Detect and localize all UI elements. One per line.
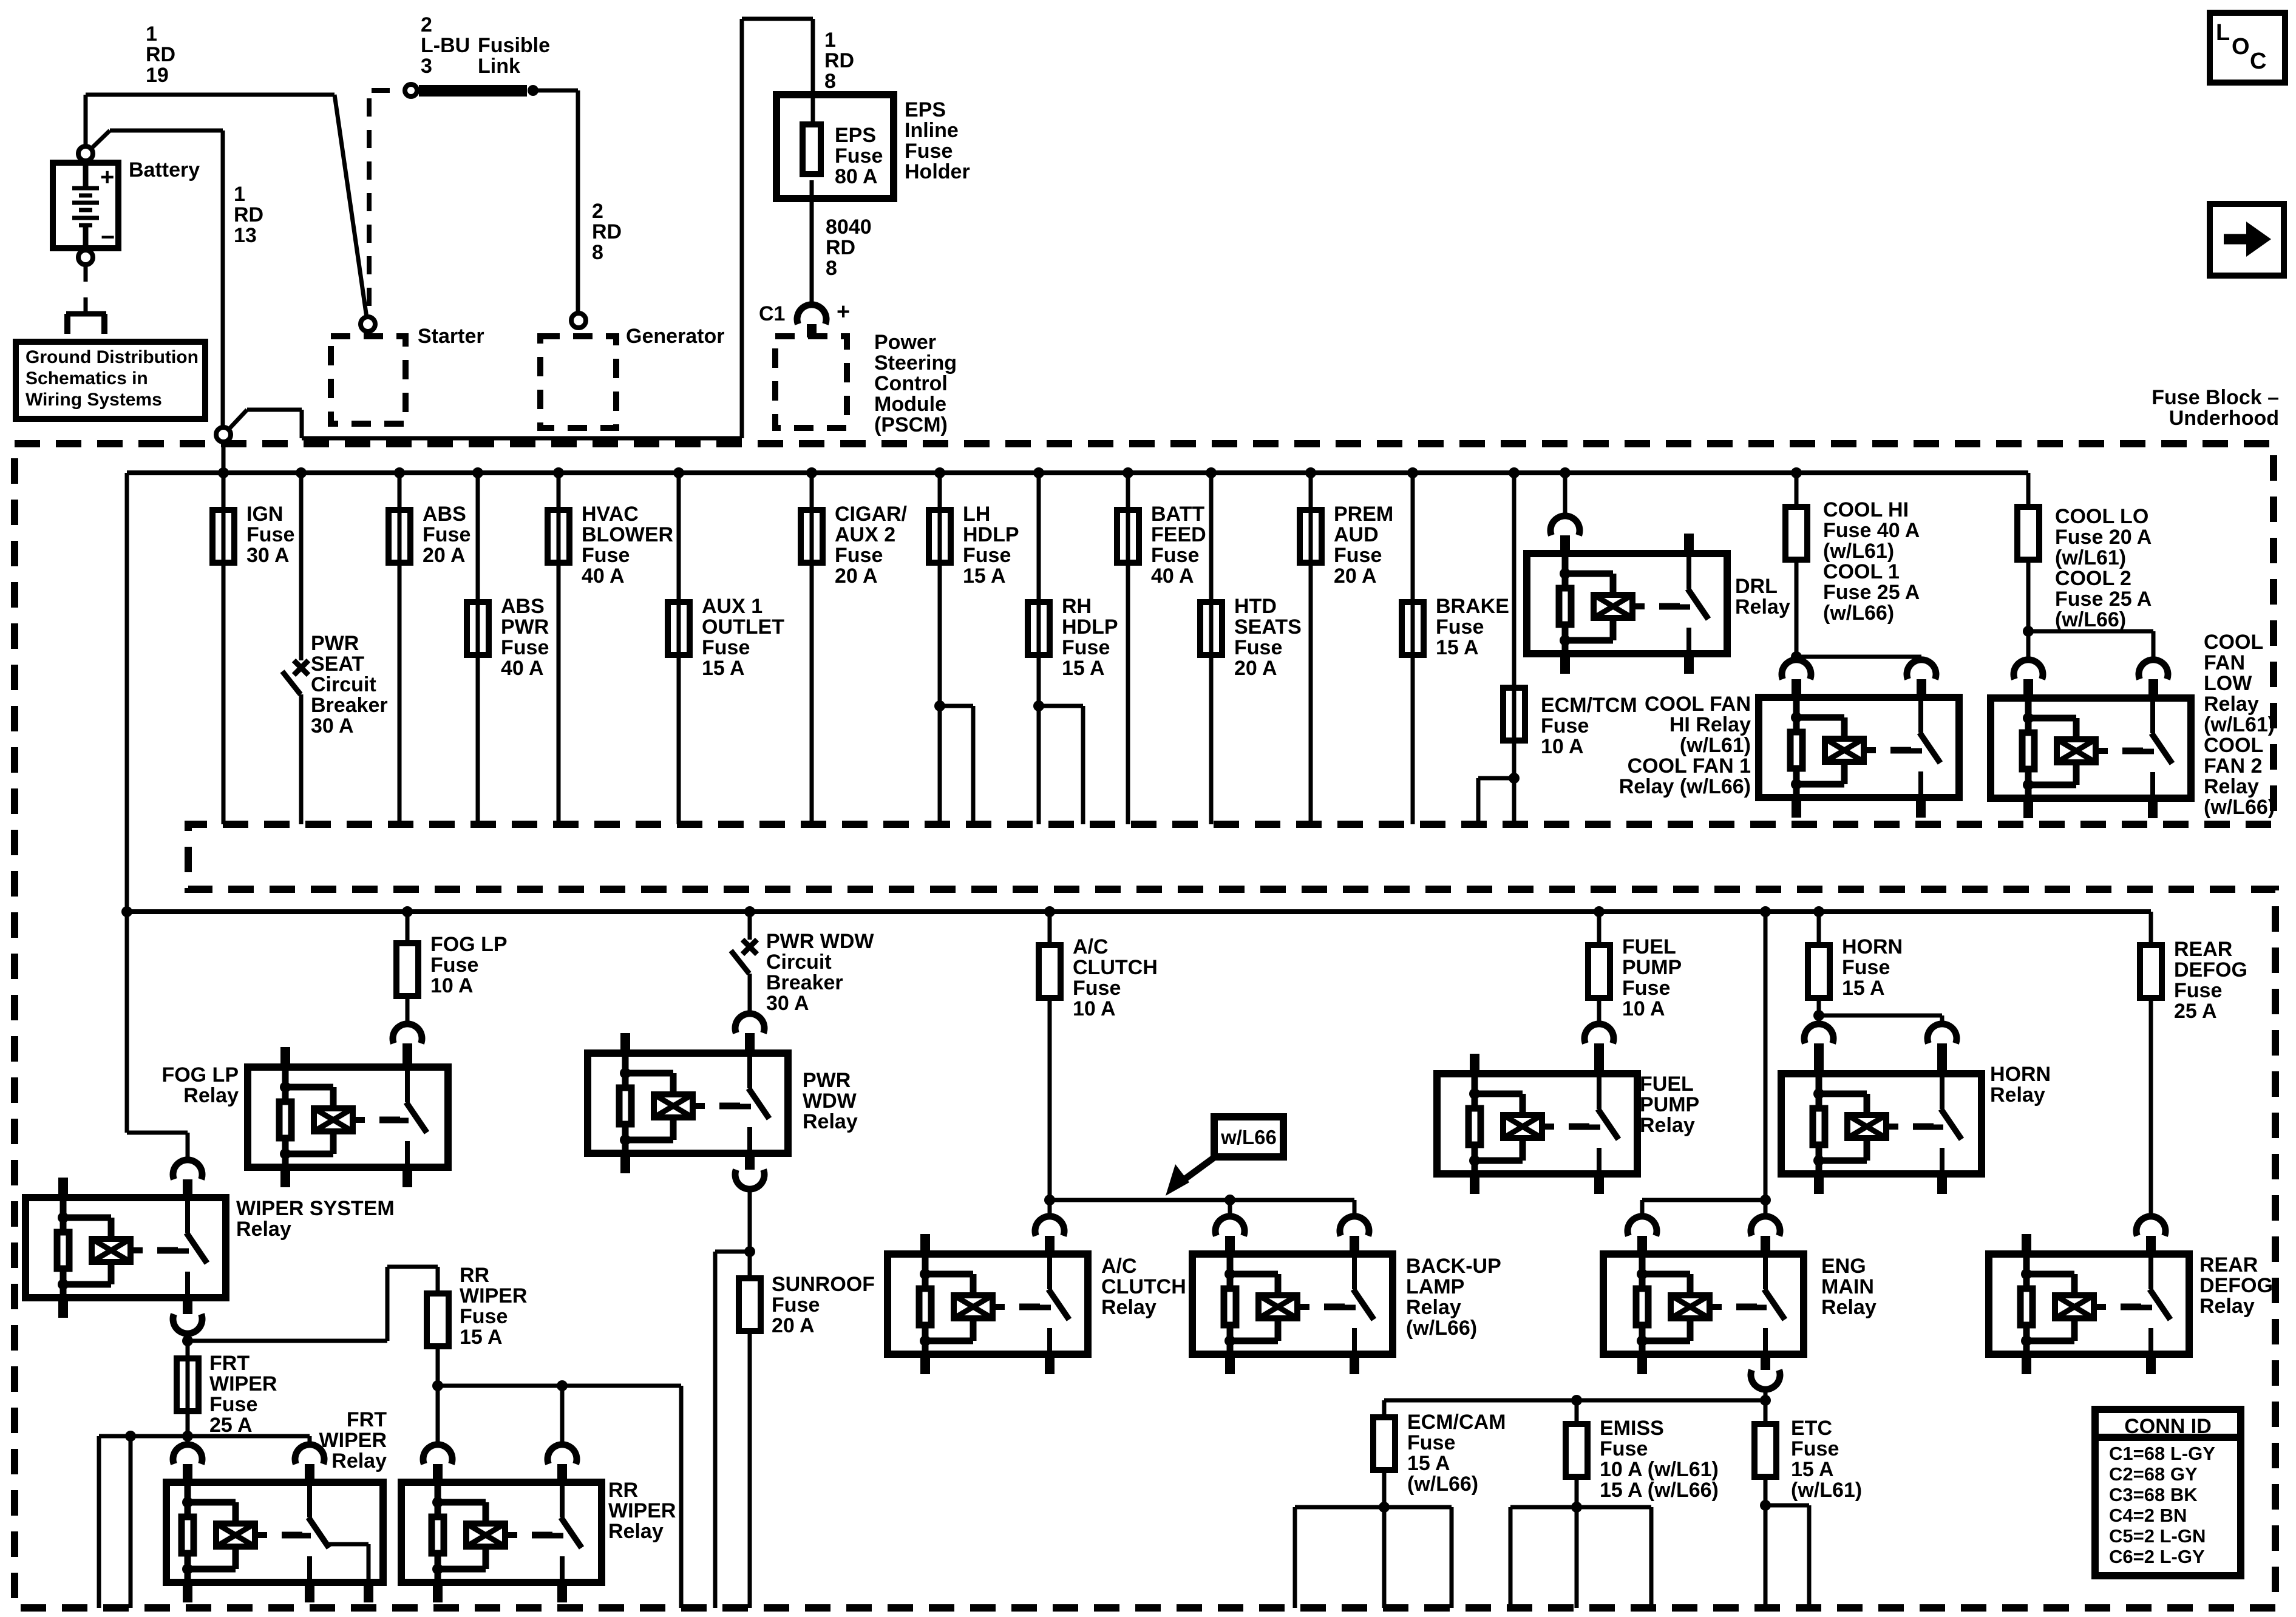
fuse RH HDLP 15 A — [1028, 602, 1050, 655]
junction BATT FEED feed — [1123, 467, 1133, 478]
fuse LH HDLP 15 A — [929, 510, 951, 563]
wire RR WIPER fuse output — [436, 1349, 440, 1386]
junction wiper feed split — [182, 1335, 193, 1346]
wire DRL relay coil feed — [1563, 473, 1567, 514]
arrow legend box (next page) — [2210, 204, 2284, 276]
wire battery positive feed 1 RD 13 (to fuse block) — [91, 131, 110, 149]
wire battery ground (dashed) — [84, 266, 88, 282]
wire SUNROOF fuse output — [748, 1334, 752, 1608]
wire load output leg — [679, 1386, 684, 1608]
fuse HORN 15 A — [1808, 945, 1830, 998]
junction COOL FAN HI relay feed — [1791, 651, 1802, 662]
fuse AUX 1 OUTLET 15 A — [668, 602, 690, 655]
wire WIPER SYSTEM relay output — [173, 1314, 202, 1334]
wire ABS fuse output — [398, 473, 402, 824]
relay ENG MAIN — [1628, 1216, 1657, 1236]
junction LH HDLP feed — [934, 467, 945, 478]
wire COOL FAN LOW relay switch branch — [2028, 629, 2153, 634]
junction HTD SEATS feed — [1206, 467, 1217, 478]
fusible link 2 L-BU 3 — [419, 85, 527, 97]
junction EMISS fuse feed — [1571, 1395, 1582, 1406]
junction ENG MAIN relay split — [1760, 1195, 1771, 1205]
fuse ECM/CAM 15 A (w/L66) — [1373, 1417, 1395, 1470]
note box Ground Distribution Schematics in Wiring Systems — [16, 342, 205, 419]
wire CIGAR/AUX 2 fuse output — [810, 473, 814, 824]
wire main bus (top) — [222, 442, 226, 473]
wire RH HDLP fuse outputs — [1037, 473, 1041, 824]
junction PREM AUD feed — [1305, 467, 1316, 478]
fuse CIGAR/AUX 2 20 A — [801, 510, 823, 563]
junction CIGAR/AUX 2 feed — [806, 467, 817, 478]
wire battery positive feed 1 RD 19 (to starter) — [86, 93, 335, 97]
junction IGN feed — [218, 467, 229, 478]
wire ENG MAIN relay feed — [1764, 912, 1768, 1200]
junction FOG LP fuse feed — [402, 906, 413, 917]
fuse FOG LP 10 A — [396, 943, 418, 996]
svg-text:+: + — [837, 299, 850, 325]
node main feed into fuse block — [216, 427, 231, 442]
fuse SUNROOF 20 A — [739, 1278, 761, 1331]
wire ABS PWR fuse output — [476, 473, 480, 824]
wire FUEL PUMP fuse — [1597, 912, 1601, 943]
fuse EPS 80 A — [803, 124, 821, 174]
wire RR WIPER fuse feed — [188, 1339, 387, 1343]
junction SUNROOF split — [744, 1246, 755, 1257]
relay COOL FAN LOW (w/L61) / COOL FAN 2 (w/L66) — [2014, 660, 2043, 679]
EPS inline fuse holder box — [776, 95, 894, 198]
junction PWR SEAT feed — [296, 467, 307, 478]
circuit breaker PWR WDW 30 A — [742, 940, 757, 954]
svg-text:Starter: Starter — [418, 325, 484, 348]
node generator output terminal — [571, 313, 586, 328]
wire ENG MAIN relay output bus — [1751, 1370, 1780, 1389]
wire PWR WDW circuit breaker — [748, 912, 752, 940]
relay RR WIPER — [423, 1445, 452, 1464]
wire HORN relay switch branch — [1819, 1014, 1942, 1018]
junction ABS fuse feed — [394, 467, 405, 478]
fuse A/C CLUTCH 10 A — [1039, 945, 1061, 998]
junction lower bus left — [121, 906, 132, 917]
wire main bus (lower) — [127, 909, 2151, 914]
wire LH HDLP fuse outputs — [938, 473, 942, 824]
relay BACK-UP LAMP (w/L66) — [1228, 1200, 1232, 1218]
wire ECM/CAM fuse feed — [1382, 1400, 1387, 1415]
wire starter terminal to fusible link (dashed) — [367, 98, 372, 313]
wire ECM/CAM fuse outputs — [1382, 1473, 1387, 1507]
connector ID table — [2095, 1409, 2241, 1576]
wire PREM AUD fuse output — [1309, 473, 1313, 824]
relay HORN — [1804, 1024, 1833, 1043]
wire BATT FEED fuse output — [1126, 473, 1130, 824]
svg-text:C1: C1 — [759, 302, 785, 325]
svg-text:FUELPUMPRelay: FUELPUMPRelay — [1640, 1073, 1699, 1137]
starter S1 (dashed outline) — [331, 336, 406, 424]
junction FUEL PUMP fuse feed — [1594, 906, 1605, 917]
svg-text:CONN ID: CONN ID — [2124, 1415, 2212, 1438]
fuse BRAKE 15 A — [1402, 602, 1424, 655]
relay COOL FAN HI (w/L61) / COOL FAN 1 (w/L66) — [1782, 660, 1811, 679]
relay DRL — [1550, 516, 1580, 535]
junction A/C CLUTCH relay feed — [1044, 1195, 1055, 1205]
wire PWR SEAT breaker — [299, 473, 304, 660]
node battery negative terminal — [78, 250, 93, 265]
wire BRAKE fuse output — [1411, 473, 1415, 824]
junction ENG MAIN feed — [1760, 906, 1771, 917]
fuse FRT WIPER 25 A — [177, 1358, 199, 1411]
fuse EMISS 10 A (w/L61) 15 A (w/L66) — [1575, 1400, 1579, 1422]
wire REAR DEFOG fuse feed — [2149, 912, 2153, 943]
ground symbol G1 — [66, 311, 106, 317]
fuse PREM AUD 20 A — [1300, 510, 1322, 563]
generator G2 (dashed outline) — [540, 336, 616, 428]
wire HVAC BLOWER fuse output — [557, 473, 561, 824]
fuse block - underhood dashed outline — [15, 444, 2275, 1608]
wire WIPER SYSTEM relay feed — [125, 912, 129, 1133]
fuse HVAC BLOWER 40 A — [548, 510, 569, 563]
fuse COOL HI 40A / COOL 1 25A — [1785, 507, 1807, 560]
wire A/C CLUTCH fuse — [1048, 912, 1052, 943]
junction HVAC BLOWER feed — [553, 467, 564, 478]
power steering control module PSCM (dashed outline) — [775, 336, 847, 428]
relay FOG LP — [393, 1024, 422, 1043]
fuse ABS PWR 40 A — [467, 602, 489, 655]
fuse ECM/TCM 10 A — [1503, 688, 1525, 741]
svg-text:Fuse Block –Underhood: Fuse Block –Underhood — [2152, 386, 2279, 430]
wire AUX 1 OUTLET fuse output — [677, 473, 681, 824]
fuse HTD SEATS 20 A — [1200, 602, 1222, 655]
wire ENG MAIN coil branch — [1642, 1198, 1765, 1202]
wire FRT WIPER outputs — [99, 1434, 310, 1439]
wire COOL HI fuse output — [1795, 473, 1799, 504]
node battery positive terminal — [78, 146, 93, 161]
svg-text:PWRWDWRelay: PWRWDWRelay — [803, 1069, 858, 1133]
junction HORN fuse feed — [1813, 906, 1824, 917]
wire load output leg — [715, 1250, 750, 1254]
note box w/L66 — [1214, 1117, 1283, 1157]
svg-text:O: O — [2232, 34, 2250, 59]
junction fusible link output — [528, 85, 538, 96]
svg-text:−: − — [101, 224, 115, 251]
LOC legend box — [2210, 13, 2285, 83]
wire EPS feed loop 1 RD 8 — [229, 410, 247, 429]
junction AUX 1 OUTLET feed — [673, 467, 684, 478]
wire w/L66 branch to BACK-UP LAMP relay — [1050, 1198, 1354, 1202]
junction FRT WIPER fuse output — [182, 1431, 193, 1442]
junction A/C CLUTCH fuse feed — [1044, 906, 1055, 917]
wire fusible link to generator — [533, 89, 578, 93]
fusible link terminal ring — [405, 84, 417, 97]
junction RH HDLP feed — [1033, 467, 1044, 478]
relay FUEL PUMP — [1584, 1024, 1614, 1043]
junction PWR WDW breaker feed — [744, 906, 755, 917]
junction DRL relay feed — [1560, 467, 1571, 478]
junction BRAKE feed — [1407, 467, 1418, 478]
fuse RR WIPER 15 A — [427, 1293, 449, 1346]
svg-text:+: + — [100, 164, 114, 191]
svg-text:Generator: Generator — [626, 325, 725, 348]
svg-text:EPSFuse80 A: EPSFuse80 A — [835, 124, 883, 188]
wire ECM/TCM fuse outputs — [1512, 473, 1517, 778]
junction ECM/TCM feed — [1509, 467, 1520, 478]
wire HORN fuse — [1817, 912, 1821, 943]
wire EMISS fuse outputs — [1575, 1479, 1579, 1507]
relay WIPER SYSTEM — [173, 1160, 202, 1179]
node starter battery terminal — [361, 317, 375, 331]
junction COOL HI fuse feed — [1791, 467, 1802, 478]
fuse ETC 15 A (w/L61) — [1754, 1424, 1776, 1477]
junction ENG MAIN output — [1760, 1395, 1771, 1406]
junction COOL FAN LOW relay feed — [2023, 626, 2034, 637]
arrow w/L66 pointer — [1178, 1156, 1217, 1184]
svg-text:L: L — [2216, 20, 2230, 46]
wire PWR WDW relay output to SUNROOF fuse — [735, 1170, 764, 1189]
fuse REAR DEFOG 25 A — [2140, 945, 2162, 998]
wire COOL FAN HI relay switch branch — [1796, 655, 1921, 659]
svg-text:C: C — [2250, 49, 2266, 74]
junction ABS PWR feed — [472, 467, 483, 478]
relay PWR WDW — [735, 1014, 764, 1033]
wire IGN fuse output — [222, 473, 226, 824]
relay FRT WIPER — [173, 1445, 202, 1464]
wire ETC fuse outputs — [1764, 1479, 1768, 1505]
wire FOG LP fuse — [406, 912, 410, 941]
junction RR WIPER split — [432, 1380, 443, 1391]
junction BACK-UP LAMP coil feed — [1224, 1195, 1235, 1205]
svg-text:ABSFuse20 A: ABSFuse20 A — [423, 503, 470, 567]
junction HORN relay split — [1813, 1010, 1824, 1021]
fuse BATT FEED 40 A — [1117, 510, 1139, 563]
fuse IGN 30 A — [212, 510, 234, 563]
wire HTD SEATS fuse output — [1209, 473, 1214, 824]
connector C1 to PSCM — [797, 305, 826, 324]
wire RR WIPER relay switch feed — [438, 1384, 681, 1388]
svg-text:Battery: Battery — [129, 158, 200, 181]
relay REAR DEFOG — [2136, 1216, 2165, 1236]
relay A/C CLUTCH — [1048, 1200, 1052, 1218]
fuse FUEL PUMP 10 A — [1588, 945, 1610, 998]
svg-text:HORNRelay: HORNRelay — [1990, 1063, 2051, 1107]
circuit breaker PWR SEAT 30 A — [294, 660, 308, 675]
svg-text:ABSPWRFuse40 A: ABSPWRFuse40 A — [501, 595, 549, 680]
fuse ABS 20 A — [389, 510, 410, 563]
wire bus drop to COOL LO fuse — [2026, 473, 2031, 504]
svg-text:w/L66: w/L66 — [1220, 1126, 1277, 1148]
battery B1 — [53, 163, 118, 248]
fuse COOL LO 20A / COOL 2 25A — [2017, 507, 2039, 560]
